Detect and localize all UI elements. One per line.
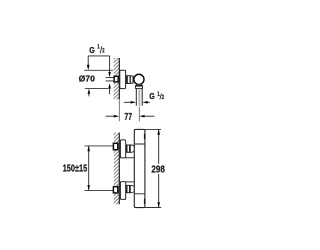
svg-text:1: 1 (157, 91, 160, 98)
svg-text:G: G (89, 45, 95, 55)
svg-text:Ø70: Ø70 (79, 74, 95, 84)
svg-text:G: G (149, 91, 155, 101)
svg-text:298: 298 (151, 165, 165, 176)
svg-text:77: 77 (124, 112, 132, 123)
svg-text:1: 1 (97, 44, 100, 51)
svg-text:2: 2 (162, 94, 165, 101)
svg-text:2: 2 (102, 48, 105, 55)
svg-text:150±15: 150±15 (63, 163, 88, 174)
